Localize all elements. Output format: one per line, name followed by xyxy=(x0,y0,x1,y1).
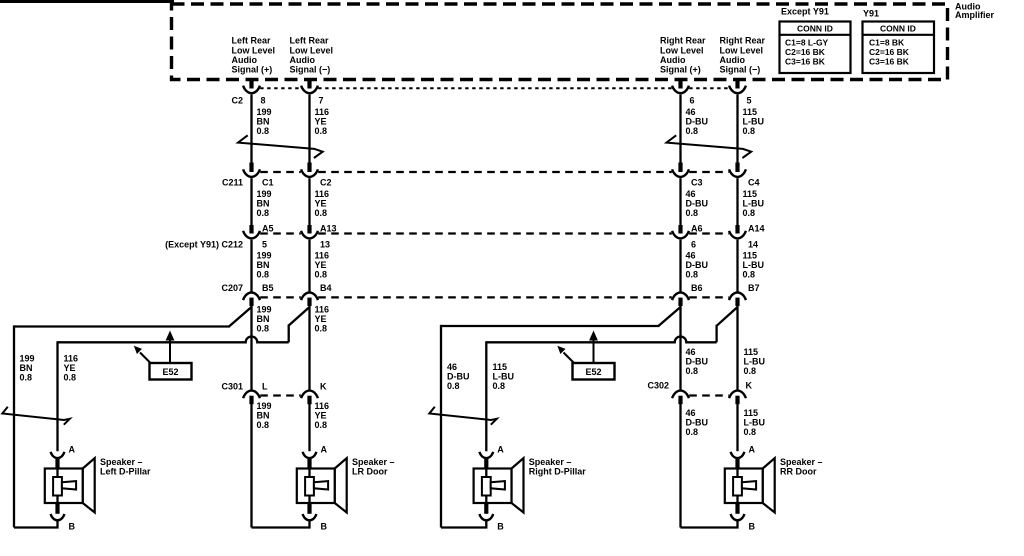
svg-text:C2=16 BK: C2=16 BK xyxy=(785,47,826,57)
svg-text:0.8: 0.8 xyxy=(686,269,699,279)
speaker RR Door terminal B xyxy=(735,503,739,514)
svg-text:116: 116 xyxy=(315,401,330,411)
connector C207 pin B5 terminal xyxy=(243,293,260,301)
svg-text:A13: A13 xyxy=(320,223,337,233)
svg-text:0.8: 0.8 xyxy=(447,381,460,391)
wire 46 D-BU from C212 to C207 xyxy=(679,240,681,292)
svg-text:A: A xyxy=(497,444,504,454)
svg-text:E52: E52 xyxy=(585,367,601,377)
svg-text:Signal (+): Signal (+) xyxy=(232,65,273,75)
svg-text:116: 116 xyxy=(315,107,330,117)
wire 46 D-BU from C211 to C212 xyxy=(679,178,681,225)
connector C211 pin C1 terminal xyxy=(243,169,260,177)
svg-text:46: 46 xyxy=(686,408,696,418)
svg-text:0.8: 0.8 xyxy=(686,366,699,376)
connector C211 pin C2 stub xyxy=(307,163,311,173)
wire 199 BN from C2 to C211 xyxy=(250,95,252,163)
connector C2 pin 5 terminal xyxy=(729,86,746,94)
svg-text:C1=8 BK: C1=8 BK xyxy=(869,38,905,48)
svg-text:K: K xyxy=(320,381,327,391)
svg-text:L: L xyxy=(262,381,268,391)
svg-text:B7: B7 xyxy=(748,283,760,293)
svg-text:Audio: Audio xyxy=(232,55,258,65)
speaker Right D-Pillar terminal A xyxy=(479,452,493,458)
svg-text:7: 7 xyxy=(319,95,324,105)
svg-text:46: 46 xyxy=(686,107,696,117)
svg-text:46: 46 xyxy=(686,347,696,357)
E52 right arrow to 115 L-BU wire xyxy=(564,353,574,363)
svg-text:B6: B6 xyxy=(691,283,703,293)
svg-text:116: 116 xyxy=(315,189,330,199)
wire 116 YE from C207 to C301 xyxy=(308,306,310,390)
connector C2 pin 6 stub xyxy=(678,80,682,89)
svg-text:LR Door: LR Door xyxy=(352,466,388,476)
svg-text:A6: A6 xyxy=(691,223,703,233)
svg-text:115: 115 xyxy=(744,408,759,418)
connector C212 pin stub xyxy=(307,225,311,234)
svg-text:0.8: 0.8 xyxy=(743,269,756,279)
svg-text:0.8: 0.8 xyxy=(257,323,270,333)
svg-text:BN: BN xyxy=(257,260,270,270)
svg-text:B: B xyxy=(321,521,328,531)
wire 46 D-BU from C207 to C302 xyxy=(679,306,681,390)
wire 115 L-BU from C207 to C302 xyxy=(736,306,738,390)
svg-text:Low Level: Low Level xyxy=(232,46,276,56)
wire 199 BN from C211 to C212 xyxy=(250,178,252,225)
E52 right arrow to 46 D-BU wire xyxy=(593,339,595,363)
wire 115 L-BU to right D-pillar speaker xyxy=(485,341,487,451)
E52 arrow to 199 BN wire xyxy=(169,339,171,363)
connector C212 pin stub xyxy=(249,225,253,234)
connector C2 pin 8 terminal xyxy=(243,86,260,94)
svg-text:199: 199 xyxy=(257,107,272,117)
wire branch diagonal 115 L-BU xyxy=(717,307,738,326)
splice label box E52 xyxy=(150,363,192,380)
svg-text:115: 115 xyxy=(743,250,758,260)
svg-text:B4: B4 xyxy=(320,283,332,293)
svg-text:115: 115 xyxy=(743,189,758,199)
wire 199 BN from C212 to C207 xyxy=(250,240,252,292)
svg-text:46: 46 xyxy=(447,362,457,372)
svg-text:D-BU: D-BU xyxy=(686,356,709,366)
svg-text:D-BU: D-BU xyxy=(447,371,470,381)
svg-text:0.8: 0.8 xyxy=(315,126,328,136)
audio amplifier dashed box xyxy=(172,4,948,80)
wire return to Right D-Pillar terminal B xyxy=(441,520,486,528)
connector C211 pin C3 terminal xyxy=(672,169,689,177)
connector C302 stub xyxy=(678,396,682,405)
connector C207 pin B7 stub xyxy=(735,298,739,306)
connector C211 pin C3 stub xyxy=(678,163,682,173)
wire 199 BN to left D-pillar speaker xyxy=(13,325,15,527)
connector C301 stub xyxy=(307,396,311,405)
svg-text:L-BU: L-BU xyxy=(743,198,765,208)
svg-text:K: K xyxy=(746,380,753,390)
svg-text:L-BU: L-BU xyxy=(743,260,765,270)
svg-text:Speaker –: Speaker – xyxy=(529,457,572,467)
svg-text:0.8: 0.8 xyxy=(686,427,699,437)
svg-text:Amplifier: Amplifier xyxy=(955,10,995,20)
svg-text:Left D-Pillar: Left D-Pillar xyxy=(100,466,151,476)
speaker RR Door body xyxy=(763,458,775,512)
svg-text:14: 14 xyxy=(748,239,758,249)
svg-text:BN: BN xyxy=(257,198,270,208)
svg-text:B: B xyxy=(497,521,504,531)
svg-text:D-BU: D-BU xyxy=(686,116,709,126)
connector C301 terminal xyxy=(243,391,260,399)
svg-text:0.8: 0.8 xyxy=(493,381,506,391)
svg-text:199: 199 xyxy=(257,250,272,260)
connector C211 dashed line xyxy=(260,171,301,173)
wire 116 YE from C212 to C207 xyxy=(308,240,310,292)
svg-text:(Except Y91) C212: (Except Y91) C212 xyxy=(165,239,243,249)
connector C211 pin C4 stub xyxy=(735,163,739,173)
svg-text:D-BU: D-BU xyxy=(686,198,709,208)
svg-text:116: 116 xyxy=(315,304,330,314)
speaker Right D-Pillar body xyxy=(512,458,524,512)
svg-text:C211: C211 xyxy=(222,177,243,187)
svg-text:115: 115 xyxy=(744,347,759,357)
svg-text:0.8: 0.8 xyxy=(743,208,756,218)
svg-text:Right Rear: Right Rear xyxy=(720,36,766,46)
connector C212 pin stub xyxy=(735,225,739,234)
speaker LR Door terminal B xyxy=(307,503,311,514)
connector C212 pin terminal xyxy=(243,231,260,239)
svg-text:Speaker –: Speaker – xyxy=(352,457,395,467)
svg-text:Right D-Pillar: Right D-Pillar xyxy=(529,466,586,476)
svg-text:C1: C1 xyxy=(262,177,274,187)
svg-text:6: 6 xyxy=(691,239,696,249)
connector C301 stub xyxy=(249,396,253,405)
conn-id table Except Y91 xyxy=(780,22,851,74)
svg-text:A5: A5 xyxy=(262,223,274,233)
wire branch diagonal 199 BN xyxy=(229,307,252,327)
wire 116 YE from C301 to LR Door speaker xyxy=(308,404,310,451)
svg-text:YE: YE xyxy=(315,116,327,126)
svg-text:0.8: 0.8 xyxy=(744,366,757,376)
connector C302 stub xyxy=(735,396,739,405)
left twisted-pair crossing mark xyxy=(238,135,323,158)
svg-text:C4: C4 xyxy=(748,177,760,187)
right harness crossing mark xyxy=(429,407,497,425)
connector C212 dashed line xyxy=(260,232,301,234)
speaker RR Door terminal A xyxy=(731,452,745,458)
connector C211 pin C1 stub xyxy=(249,163,253,173)
connector C2 pin 7 terminal xyxy=(301,86,318,94)
wire branch vertical 115 L-BU xyxy=(715,325,717,343)
svg-text:0.8: 0.8 xyxy=(315,208,328,218)
svg-text:Except Y91: Except Y91 xyxy=(781,7,829,17)
svg-text:0.8: 0.8 xyxy=(743,126,756,136)
connector C2 dashed line xyxy=(260,87,301,89)
wire branch horizontal 116 YE with hop over 199 BN wire xyxy=(58,336,289,342)
svg-text:A: A xyxy=(69,444,76,454)
svg-text:0.8: 0.8 xyxy=(686,126,699,136)
page top border line xyxy=(0,0,174,3)
svg-text:Low Level: Low Level xyxy=(660,46,704,56)
wire return to LR Door terminal B xyxy=(252,520,310,528)
connector C302 dashed line xyxy=(689,394,729,396)
svg-text:199: 199 xyxy=(257,401,272,411)
svg-text:L-BU: L-BU xyxy=(744,356,766,366)
svg-text:Signal (−): Signal (−) xyxy=(290,65,331,75)
svg-text:C3: C3 xyxy=(691,177,703,187)
speaker Left D-Pillar terminal A xyxy=(51,452,65,458)
conn-id table Y91 xyxy=(863,22,935,74)
svg-text:YE: YE xyxy=(315,410,327,420)
svg-text:13: 13 xyxy=(320,239,330,249)
svg-text:L-BU: L-BU xyxy=(743,116,765,126)
svg-text:0.8: 0.8 xyxy=(744,427,757,437)
svg-text:Audio: Audio xyxy=(290,55,316,65)
svg-text:A14: A14 xyxy=(748,223,765,233)
connector C207 pin B5 stub xyxy=(249,298,253,306)
svg-text:Low Level: Low Level xyxy=(290,46,334,56)
connector C2 pin 8 stub xyxy=(249,80,253,89)
wire 199 BN from C301 to LR Door speaker xyxy=(250,404,252,528)
svg-text:115: 115 xyxy=(493,362,508,372)
svg-text:C1=8 L-GY: C1=8 L-GY xyxy=(785,38,829,48)
wire branch vertical 116 YE xyxy=(288,325,290,343)
svg-text:Y91: Y91 xyxy=(863,8,879,18)
connector C212 pin stub xyxy=(678,225,682,234)
svg-text:Right Rear: Right Rear xyxy=(660,36,706,46)
svg-text:0.8: 0.8 xyxy=(20,372,33,382)
svg-text:C3=16 BK: C3=16 BK xyxy=(785,57,826,67)
connector C2 pin 5 stub xyxy=(735,80,739,89)
wire branch diagonal 116 YE xyxy=(289,307,310,326)
wire return to RR Door terminal B xyxy=(681,520,738,528)
svg-text:RR Door: RR Door xyxy=(780,466,817,476)
svg-text:0.8: 0.8 xyxy=(686,208,699,218)
svg-text:E52: E52 xyxy=(162,367,178,377)
connector C207 pin B6 stub xyxy=(678,298,682,306)
wire return to Left D-Pillar terminal B xyxy=(14,520,58,528)
svg-text:5: 5 xyxy=(262,239,267,249)
svg-text:BN: BN xyxy=(257,314,270,324)
svg-text:C3=16 BK: C3=16 BK xyxy=(869,57,910,67)
wire 115 L-BU from C302 to RR Door speaker xyxy=(736,404,738,451)
svg-text:BN: BN xyxy=(257,116,270,126)
connector C207 pin B7 terminal xyxy=(729,293,746,301)
svg-text:YE: YE xyxy=(315,314,327,324)
connector C207 pin B4 terminal xyxy=(301,293,318,301)
connector C212 pin terminal xyxy=(301,231,318,239)
svg-text:0.8: 0.8 xyxy=(315,420,328,430)
svg-text:Audio: Audio xyxy=(660,55,686,65)
svg-text:Signal (+): Signal (+) xyxy=(660,65,701,75)
svg-text:Signal (−): Signal (−) xyxy=(720,65,761,75)
connector C302 terminal xyxy=(672,391,689,399)
left harness crossing mark xyxy=(2,407,70,425)
svg-text:0.8: 0.8 xyxy=(257,126,270,136)
connector C211 pin C2 terminal xyxy=(301,169,318,177)
svg-text:C207: C207 xyxy=(221,283,243,293)
svg-text:Left Rear: Left Rear xyxy=(290,36,330,46)
svg-text:199: 199 xyxy=(20,353,35,363)
svg-text:8: 8 xyxy=(261,95,266,105)
svg-text:116: 116 xyxy=(64,353,79,363)
svg-text:Low Level: Low Level xyxy=(720,46,764,56)
svg-text:L-BU: L-BU xyxy=(744,417,766,427)
svg-text:46: 46 xyxy=(686,250,696,260)
connector C2 pin 6 terminal xyxy=(672,86,689,94)
connector C212 pin terminal xyxy=(672,231,689,239)
svg-text:0.8: 0.8 xyxy=(257,269,270,279)
connector C2 pin 7 stub xyxy=(307,80,311,89)
svg-text:Audio: Audio xyxy=(720,55,746,65)
svg-text:CONN ID: CONN ID xyxy=(797,24,833,34)
svg-text:B: B xyxy=(69,521,76,531)
svg-text:199: 199 xyxy=(257,304,272,314)
svg-text:0.8: 0.8 xyxy=(315,323,328,333)
svg-text:C302: C302 xyxy=(647,380,669,390)
wire 115 L-BU from C212 to C207 xyxy=(736,240,738,292)
wire branch horizontal 46 D-BU xyxy=(441,325,659,327)
connector C211 pin C4 terminal xyxy=(729,169,746,177)
wire 115 L-BU from C2 to C211 xyxy=(736,95,738,163)
connector C301 dashed line xyxy=(260,394,301,396)
connector C207 dashed line xyxy=(260,296,301,298)
svg-text:6: 6 xyxy=(690,95,695,105)
svg-text:B: B xyxy=(749,521,756,531)
E52 arrow to 116 YE wire xyxy=(140,353,150,363)
svg-text:D-BU: D-BU xyxy=(686,260,709,270)
wire 116 YE from C2 to C211 xyxy=(308,95,310,163)
wire 115 L-BU from C211 to C212 xyxy=(736,178,738,225)
speaker Left D-Pillar terminal B xyxy=(55,503,59,514)
svg-text:L-BU: L-BU xyxy=(493,371,515,381)
svg-text:116: 116 xyxy=(315,250,330,260)
svg-text:D-BU: D-BU xyxy=(686,417,709,427)
wire 46 D-BU from C302 to RR Door speaker xyxy=(679,404,681,528)
svg-text:46: 46 xyxy=(686,189,696,199)
svg-text:B5: B5 xyxy=(262,283,274,293)
speaker LR Door terminal A xyxy=(303,452,317,458)
svg-text:0.8: 0.8 xyxy=(257,208,270,218)
right twisted-pair crossing mark xyxy=(667,135,752,158)
wire 116 YE to left D-pillar speaker xyxy=(56,341,58,451)
wire 199 BN from C207 to C301 xyxy=(250,306,252,390)
wire 46 D-BU to right D-pillar speaker xyxy=(440,325,442,528)
svg-text:199: 199 xyxy=(257,189,272,199)
svg-text:0.8: 0.8 xyxy=(257,420,270,430)
svg-text:Speaker –: Speaker – xyxy=(780,457,823,467)
svg-text:0.8: 0.8 xyxy=(315,269,328,279)
svg-text:Left Rear: Left Rear xyxy=(232,36,272,46)
speaker Left D-Pillar body xyxy=(83,458,95,512)
svg-text:A: A xyxy=(321,444,328,454)
wire branch diagonal 46 D-BU xyxy=(658,307,680,326)
wire branch horizontal 199 BN xyxy=(14,325,230,327)
wire 46 D-BU from C2 to C211 xyxy=(679,95,681,163)
svg-text:CONN ID: CONN ID xyxy=(880,24,916,34)
svg-text:5: 5 xyxy=(747,95,752,105)
svg-text:C2: C2 xyxy=(231,95,243,105)
connector C301 terminal xyxy=(301,391,318,399)
svg-text:0.8: 0.8 xyxy=(64,372,77,382)
svg-text:BN: BN xyxy=(20,363,33,373)
svg-text:C301: C301 xyxy=(221,381,243,391)
svg-text:A: A xyxy=(749,444,756,454)
svg-text:Speaker –: Speaker – xyxy=(100,457,143,467)
splice label box E52 right xyxy=(573,363,615,380)
connector C302 terminal xyxy=(729,391,746,399)
speaker LR Door body xyxy=(335,458,347,512)
connector C207 pin B6 terminal xyxy=(672,293,689,301)
svg-text:YE: YE xyxy=(64,363,76,373)
svg-text:YE: YE xyxy=(315,260,327,270)
connector C207 pin B4 stub xyxy=(307,298,311,306)
svg-text:C2=16 BK: C2=16 BK xyxy=(869,47,910,57)
svg-text:115: 115 xyxy=(743,107,758,117)
connector C212 pin terminal xyxy=(729,231,746,239)
svg-text:BN: BN xyxy=(257,410,270,420)
wire branch horizontal 115 L-BU with hop over 46 D-BU wire xyxy=(486,337,716,343)
wire 116 YE from C211 to C212 xyxy=(308,178,310,225)
svg-text:C2: C2 xyxy=(320,177,332,187)
speaker Right D-Pillar terminal B xyxy=(484,503,488,514)
svg-text:YE: YE xyxy=(315,198,327,208)
